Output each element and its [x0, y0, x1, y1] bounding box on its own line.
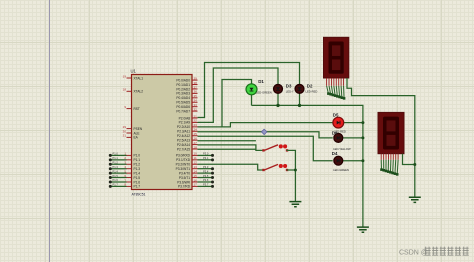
P1.0-P1.7 net stub wires with labels — [109, 152, 127, 188]
svg-text:P2.2/A10: P2.2/A10 — [177, 125, 190, 129]
sheet border line — [49, 0, 51, 262]
wire SW2 to ground rail — [287, 169, 296, 171]
svg-text:P1.5: P1.5 — [134, 176, 141, 180]
svg-text:21: 21 — [194, 114, 198, 118]
svg-text:28: 28 — [194, 145, 198, 149]
svg-text:13: 13 — [194, 165, 198, 169]
P3 net stub wires with labels — [198, 152, 215, 188]
DS1 pins and fan wires — [327, 78, 346, 100]
ground (LED bus) — [357, 227, 369, 232]
svg-text:P1.7: P1.7 — [113, 183, 119, 187]
svg-text:P3.1/TXD: P3.1/TXD — [176, 158, 191, 162]
svg-text:P2.7/A15: P2.7/A15 — [177, 147, 190, 151]
wire P2.6 to switch SW1 — [198, 145, 263, 151]
junction D4 bus — [361, 159, 364, 162]
svg-text:LED-Y: LED-Y — [286, 90, 294, 94]
junction D6 bus — [361, 136, 364, 139]
svg-text:35: 35 — [194, 94, 198, 98]
svg-text:30: 30 — [123, 129, 127, 133]
svg-text:P1.4: P1.4 — [113, 169, 119, 173]
LED D1 (green, lit) — [246, 79, 272, 106]
svg-text:18: 18 — [123, 88, 127, 92]
junction D2 bus — [298, 104, 301, 107]
svg-text:P3.0: P3.0 — [203, 152, 209, 156]
junction D5 bus — [361, 121, 364, 124]
svg-text:P2.5/A13: P2.5/A13 — [177, 138, 190, 142]
svg-text:P3.2/INT0: P3.2/INT0 — [176, 163, 191, 167]
svg-text:P0.5/AD5: P0.5/AD5 — [176, 101, 190, 105]
wire branch to D5 — [222, 123, 333, 127]
svg-text:P2.0/A8: P2.0/A8 — [179, 116, 191, 120]
svg-text:38: 38 — [194, 81, 198, 85]
svg-text:D2: D2 — [307, 84, 313, 89]
svg-text:LED-GREEN: LED-GREEN — [333, 168, 349, 172]
svg-text:36: 36 — [194, 90, 198, 94]
svg-text:P3.6: P3.6 — [203, 178, 209, 182]
svg-text:D5: D5 — [333, 112, 339, 117]
svg-text:P2.6/A14: P2.6/A14 — [177, 143, 190, 147]
svg-text:11: 11 — [194, 156, 197, 160]
svg-text:P0.2/AD2: P0.2/AD2 — [176, 87, 190, 91]
wire P2.3 to D6 (with origin diamond on it) — [198, 132, 333, 138]
svg-text:RST: RST — [134, 107, 140, 111]
LED D3 (yellow, off) — [274, 84, 294, 106]
svg-text:U1: U1 — [131, 69, 137, 74]
switch SW2 — [262, 164, 288, 171]
svg-text:26: 26 — [194, 136, 198, 140]
svg-text:P3.7: P3.7 — [203, 183, 209, 187]
7-segment display DS2 — [378, 112, 404, 153]
svg-text:P3.1: P3.1 — [203, 156, 209, 160]
svg-text:P1.0: P1.0 — [134, 154, 141, 158]
svg-text:P3.7/RD: P3.7/RD — [178, 185, 191, 189]
svg-text:PSEN: PSEN — [134, 127, 143, 131]
switch SW1 — [262, 144, 288, 151]
ground (displays) — [409, 197, 421, 202]
svg-text:D3: D3 — [286, 84, 292, 89]
microcontroller U1 AT89C51 — [123, 69, 198, 197]
svg-text:P1.6: P1.6 — [113, 178, 119, 182]
svg-text:P1.3: P1.3 — [113, 165, 119, 169]
svg-text:P1.6: P1.6 — [134, 180, 141, 184]
svg-text:31: 31 — [123, 134, 127, 138]
svg-text:P3.6/WR: P3.6/WR — [177, 180, 190, 184]
LED D4 (green, off) — [332, 151, 363, 172]
ground (switches) — [289, 202, 301, 207]
svg-text:P0.6/AD6: P0.6/AD6 — [176, 105, 190, 109]
svg-text:17: 17 — [194, 183, 198, 187]
svg-text:D6: D6 — [332, 130, 338, 135]
svg-text:P1.5: P1.5 — [113, 174, 119, 178]
svg-text:34: 34 — [194, 99, 198, 103]
svg-text:P0.7/AD7: P0.7/AD7 — [176, 109, 190, 113]
svg-text:37: 37 — [194, 85, 198, 89]
svg-text:P2.1/A9: P2.1/A9 — [179, 121, 191, 125]
svg-text:27: 27 — [194, 141, 198, 145]
svg-text:P1.1: P1.1 — [113, 156, 119, 160]
junction DS2 ground rail — [413, 163, 416, 166]
svg-text:P3.4/T0: P3.4/T0 — [179, 171, 190, 175]
svg-text:19: 19 — [123, 74, 127, 78]
svg-text:15: 15 — [194, 174, 198, 178]
svg-text:P1.0: P1.0 — [113, 152, 119, 156]
junction D3 bus — [276, 104, 279, 107]
svg-text:P2.3/A11: P2.3/A11 — [177, 130, 190, 134]
wire P2.1 to D3 — [198, 68, 279, 122]
svg-text:P0.4/AD4: P0.4/AD4 — [176, 96, 190, 100]
svg-text:P3.3/INT1: P3.3/INT1 — [176, 167, 191, 171]
svg-text:P3.0/RXD: P3.0/RXD — [176, 154, 191, 158]
svg-text:14: 14 — [194, 169, 198, 173]
svg-text:33: 33 — [194, 103, 198, 107]
origin marker diamond — [261, 129, 267, 135]
svg-text:CSDN @: CSDN @ — [399, 250, 428, 257]
svg-text:P1.2: P1.2 — [113, 160, 119, 164]
svg-text:D1: D1 — [258, 79, 264, 84]
svg-text:P1.2: P1.2 — [134, 163, 141, 167]
svg-text:25: 25 — [194, 132, 198, 136]
svg-text:P3.4: P3.4 — [203, 169, 209, 173]
wire DS1 common to ground rail — [347, 78, 415, 197]
svg-text:P1.4: P1.4 — [134, 171, 141, 175]
wire P2.5 row — [198, 140, 256, 142]
DS2 pins and fan wires — [380, 154, 398, 176]
svg-text:22: 22 — [194, 119, 198, 123]
svg-text:P3.5: P3.5 — [203, 174, 209, 178]
svg-text:P3.3: P3.3 — [203, 165, 209, 169]
svg-text:P0.3/AD3: P0.3/AD3 — [176, 92, 190, 96]
wire P2.4 to D4 — [198, 136, 333, 161]
svg-text:P2.4/A12: P2.4/A12 — [177, 134, 190, 138]
svg-text:P0.1/AD1: P0.1/AD1 — [176, 83, 190, 87]
svg-text:AT89C51: AT89C51 — [132, 193, 146, 197]
wire DS2 common to ground rail — [403, 154, 415, 165]
svg-text:16: 16 — [194, 178, 198, 182]
svg-text:P1.7: P1.7 — [134, 185, 141, 189]
LED cathode bus wire — [252, 105, 363, 227]
svg-text:10: 10 — [194, 152, 198, 156]
svg-text:LED-GREEN: LED-GREEN — [256, 91, 272, 95]
svg-text:39: 39 — [194, 76, 198, 80]
wire P2.2 to D1 — [198, 80, 252, 127]
svg-text:XTAL1: XTAL1 — [134, 76, 144, 80]
svg-text:12: 12 — [194, 161, 198, 165]
svg-text:29: 29 — [123, 125, 127, 129]
wire P3.2 to switch SW2 — [198, 164, 263, 170]
junction SW2 ground rail — [294, 169, 297, 172]
svg-text:23: 23 — [194, 123, 198, 127]
7-segment display DS1 — [324, 37, 349, 78]
svg-text:P1.1: P1.1 — [134, 158, 141, 162]
svg-text:32: 32 — [194, 107, 198, 111]
svg-text:24: 24 — [194, 128, 198, 132]
LED D2 (red, off) — [295, 84, 317, 106]
wire P2.0 to D2 — [198, 63, 300, 118]
svg-text:XTAL2: XTAL2 — [134, 90, 144, 94]
svg-text:P0.0/AD0: P0.0/AD0 — [176, 78, 190, 82]
LED D5 (red, lit) — [333, 112, 363, 133]
svg-text:P1.3: P1.3 — [134, 167, 141, 171]
svg-text:LED-RED: LED-RED — [306, 90, 318, 94]
LED D6 (yellow, off) — [332, 130, 363, 151]
svg-text:ALE: ALE — [134, 131, 140, 135]
wire SW1 to ground rail — [287, 150, 296, 201]
wire P2.7 row — [198, 148, 256, 150]
svg-text:P3.5/T1: P3.5/T1 — [179, 176, 190, 180]
svg-text:D4: D4 — [332, 151, 338, 156]
